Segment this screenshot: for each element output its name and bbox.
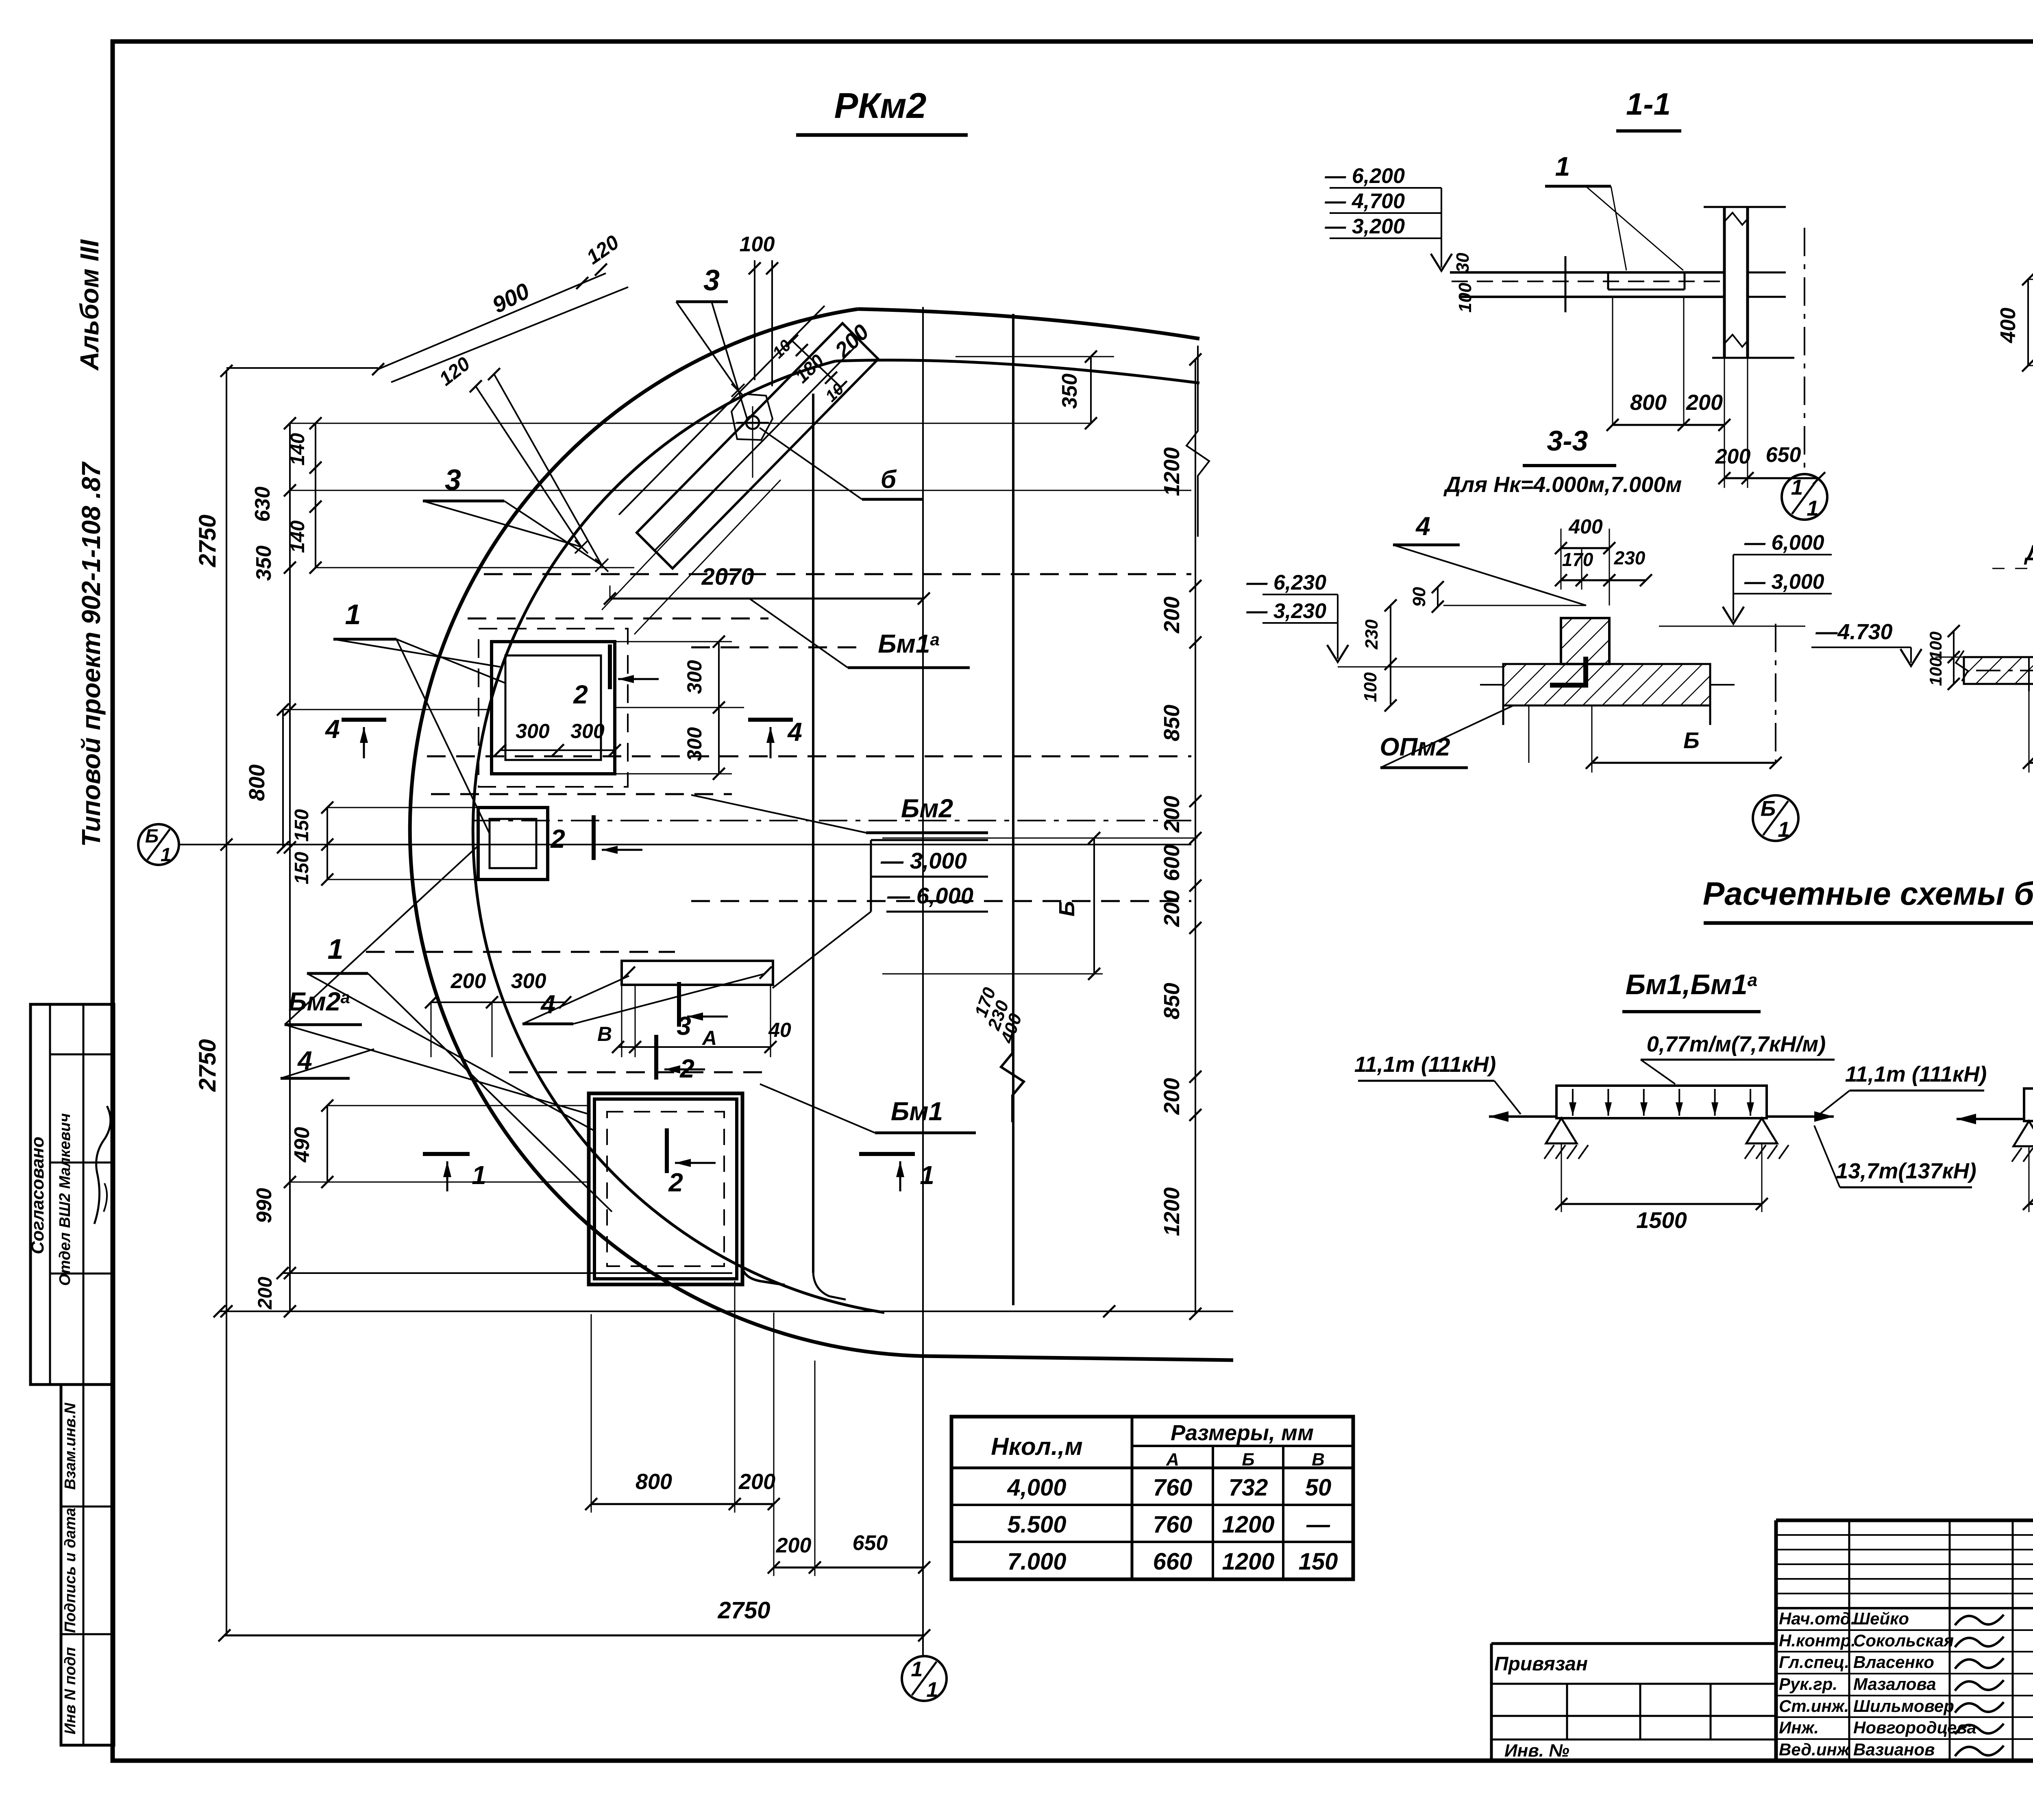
svg-text:А: А xyxy=(1166,1450,1179,1469)
svg-text:630: 630 xyxy=(251,487,274,522)
svg-text:650: 650 xyxy=(1766,443,1801,467)
svg-text:1: 1 xyxy=(472,1160,486,1190)
svg-text:230: 230 xyxy=(1362,619,1382,650)
svg-text:Рук.гр.: Рук.гр. xyxy=(1779,1674,1837,1694)
svg-text:Для Нк= 5,500м: Для Нк= 5,500м xyxy=(2024,541,2033,565)
svg-text:7.000: 7.000 xyxy=(1007,1548,1066,1575)
svg-text:1200: 1200 xyxy=(1222,1548,1274,1575)
svg-text:Отдел ВШ2 Малкевич: Отдел ВШ2 Малкевич xyxy=(57,1113,74,1286)
svg-text:650: 650 xyxy=(853,1531,888,1555)
svg-text:300: 300 xyxy=(683,660,706,694)
svg-text:100: 100 xyxy=(1926,657,1945,686)
svg-text:Инв. №: Инв. № xyxy=(1504,1741,1569,1761)
svg-text:0,77т/м(7,7кН/м): 0,77т/м(7,7кН/м) xyxy=(1647,1032,1826,1056)
svg-text:Размеры, мм: Размеры, мм xyxy=(1171,1421,1314,1445)
svg-text:4,000: 4,000 xyxy=(1007,1474,1066,1501)
svg-text:Новгородцева: Новгородцева xyxy=(1853,1718,1976,1737)
svg-text:— 3,000: — 3,000 xyxy=(1744,570,1824,594)
svg-text:170: 170 xyxy=(1562,549,1593,570)
svg-text:1: 1 xyxy=(920,1160,934,1190)
svg-text:Привязан: Привязан xyxy=(1494,1653,1588,1675)
svg-text:1: 1 xyxy=(926,1678,938,1702)
svg-text:990: 990 xyxy=(252,1188,276,1223)
svg-text:Мазалова: Мазалова xyxy=(1853,1674,1936,1694)
svg-text:Б: Б xyxy=(1761,797,1776,821)
svg-text:3: 3 xyxy=(703,264,720,297)
svg-text:Типовой проект 902-1-108 .87: Типовой проект 902-1-108 .87 xyxy=(76,461,106,847)
svg-text:800: 800 xyxy=(1630,390,1667,415)
svg-text:100: 100 xyxy=(740,233,775,256)
svg-text:150: 150 xyxy=(291,809,313,842)
svg-text:Власенко: Власенко xyxy=(1853,1652,1934,1672)
svg-text:Инв N подп: Инв N подп xyxy=(62,1647,79,1735)
svg-text:200: 200 xyxy=(255,1277,276,1310)
svg-text:Шейко: Шейко xyxy=(1853,1609,1909,1628)
svg-text:2: 2 xyxy=(679,1054,694,1083)
svg-text:140: 140 xyxy=(287,433,309,466)
svg-text:1: 1 xyxy=(1807,496,1818,520)
svg-text:1: 1 xyxy=(1791,475,1803,499)
svg-text:—: — xyxy=(1306,1511,1330,1538)
svg-text:— 3,230: — 3,230 xyxy=(1246,599,1326,623)
svg-text:— 3,000: — 3,000 xyxy=(880,848,967,873)
svg-text:400: 400 xyxy=(1996,308,2020,344)
svg-text:13,7т(137кН): 13,7т(137кН) xyxy=(1836,1159,1976,1183)
svg-text:Бм1,Бм1а: Бм1,Бм1а xyxy=(1626,969,1757,1000)
svg-text:1: 1 xyxy=(911,1658,923,1681)
svg-text:б: б xyxy=(881,466,897,494)
svg-text:4: 4 xyxy=(1415,512,1430,541)
svg-text:1: 1 xyxy=(1778,818,1789,842)
svg-text:300: 300 xyxy=(511,969,546,993)
svg-text:Б: Б xyxy=(145,825,159,847)
svg-text:400: 400 xyxy=(1568,515,1603,538)
svg-text:Расчетные схемы балок: Расчетные схемы балок xyxy=(1703,875,2033,912)
svg-text:Альбом III: Альбом III xyxy=(75,239,104,371)
svg-text:2: 2 xyxy=(668,1168,683,1197)
svg-text:200: 200 xyxy=(738,1469,775,1494)
svg-text:Вед.инж: Вед.инж xyxy=(1779,1740,1850,1759)
svg-text:— 6,200: — 6,200 xyxy=(1324,164,1405,188)
svg-text:300: 300 xyxy=(683,727,706,761)
svg-text:200: 200 xyxy=(1160,597,1184,634)
svg-text:50: 50 xyxy=(1305,1474,1332,1501)
svg-text:660: 660 xyxy=(1153,1548,1193,1575)
svg-text:2: 2 xyxy=(573,680,588,709)
svg-text:350: 350 xyxy=(1058,374,1082,409)
svg-text:200: 200 xyxy=(776,1534,812,1557)
svg-text:1200: 1200 xyxy=(1160,447,1184,496)
svg-text:100: 100 xyxy=(1360,672,1380,702)
svg-text:— 4,700: — 4,700 xyxy=(1324,189,1405,213)
svg-text:600: 600 xyxy=(1160,845,1184,881)
svg-text:1200: 1200 xyxy=(1222,1511,1274,1538)
svg-text:В: В xyxy=(597,1023,612,1045)
svg-text:Подпись и дата: Подпись и дата xyxy=(62,1508,79,1633)
svg-text:90: 90 xyxy=(1409,587,1429,607)
svg-text:140: 140 xyxy=(287,520,309,553)
svg-text:1-1: 1-1 xyxy=(1626,87,1671,122)
svg-text:2: 2 xyxy=(550,824,565,853)
svg-text:200: 200 xyxy=(1160,1078,1184,1115)
svg-text:Взам.инв.N: Взам.инв.N xyxy=(62,1402,79,1490)
svg-text:3: 3 xyxy=(677,1011,691,1041)
svg-text:Для Нк=4.000м,7.000м: Для Нк=4.000м,7.000м xyxy=(1443,472,1682,497)
svg-text:200: 200 xyxy=(1160,796,1184,833)
svg-text:300: 300 xyxy=(516,720,550,742)
svg-text:Инж.: Инж. xyxy=(1779,1718,1819,1737)
svg-text:2750: 2750 xyxy=(194,1039,221,1092)
svg-text:2070: 2070 xyxy=(701,564,754,590)
svg-text:800: 800 xyxy=(636,1469,672,1494)
svg-text:1: 1 xyxy=(345,599,361,630)
svg-text:Сокольская: Сокольская xyxy=(1853,1631,1954,1650)
svg-text:300: 300 xyxy=(570,720,605,742)
svg-text:1: 1 xyxy=(161,844,171,865)
svg-text:Ст.инж.: Ст.инж. xyxy=(1779,1696,1849,1716)
svg-text:1: 1 xyxy=(328,933,344,965)
svg-text:150: 150 xyxy=(291,852,313,884)
svg-text:760: 760 xyxy=(1153,1511,1193,1538)
svg-text:1200: 1200 xyxy=(1160,1187,1184,1236)
svg-text:11,1т (111кН): 11,1т (111кН) xyxy=(1354,1052,1496,1077)
svg-text:Бм1: Бм1 xyxy=(891,1097,943,1126)
svg-text:ОПм2: ОПм2 xyxy=(1380,733,1450,761)
svg-text:— 6,000: — 6,000 xyxy=(887,883,973,908)
svg-text:Согласовано: Согласовано xyxy=(28,1136,48,1254)
svg-text:— 6,000: — 6,000 xyxy=(1744,531,1824,555)
svg-text:490: 490 xyxy=(290,1127,314,1163)
svg-text:—4.730: —4.730 xyxy=(1815,620,1892,644)
svg-text:850: 850 xyxy=(1160,983,1184,1019)
svg-text:Гл.спец.: Гл.спец. xyxy=(1779,1652,1849,1672)
svg-text:Нкол.,м: Нкол.,м xyxy=(991,1433,1082,1460)
svg-text:5.500: 5.500 xyxy=(1007,1511,1066,1538)
svg-text:Нач.отд.: Нач.отд. xyxy=(1779,1609,1855,1628)
svg-text:800: 800 xyxy=(245,764,269,801)
svg-text:1500: 1500 xyxy=(1636,1207,1687,1233)
svg-text:В: В xyxy=(1312,1450,1325,1469)
svg-text:200: 200 xyxy=(451,969,486,993)
svg-text:40: 40 xyxy=(768,1019,791,1041)
svg-text:760: 760 xyxy=(1153,1474,1193,1501)
svg-text:— 3,200: — 3,200 xyxy=(1324,215,1405,238)
svg-text:350: 350 xyxy=(252,546,276,581)
svg-text:850: 850 xyxy=(1160,705,1184,741)
svg-text:Б: Б xyxy=(1683,727,1700,753)
svg-text:Б: Б xyxy=(1242,1450,1254,1469)
svg-text:А: А xyxy=(701,1027,717,1049)
svg-text:Н.контр.: Н.контр. xyxy=(1779,1631,1856,1650)
svg-text:230: 230 xyxy=(1614,547,1646,568)
svg-text:Вазианов: Вазианов xyxy=(1853,1740,1935,1759)
svg-text:200: 200 xyxy=(1715,445,1751,468)
svg-text:3-3: 3-3 xyxy=(1547,425,1588,457)
svg-text:11,1т (111кН): 11,1т (111кН) xyxy=(1845,1062,1987,1086)
svg-text:150: 150 xyxy=(1299,1548,1338,1575)
svg-text:732: 732 xyxy=(1229,1474,1268,1501)
svg-text:200: 200 xyxy=(1686,390,1723,415)
svg-text:2750: 2750 xyxy=(717,1597,770,1624)
svg-text:— 6,230: — 6,230 xyxy=(1246,571,1326,594)
svg-text:100: 100 xyxy=(1926,631,1945,660)
svg-text:4: 4 xyxy=(787,717,802,747)
svg-text:2750: 2750 xyxy=(194,514,221,567)
svg-text:4: 4 xyxy=(324,714,340,744)
svg-text:3: 3 xyxy=(445,464,461,496)
svg-text:Шильмовер: Шильмовер xyxy=(1853,1696,1954,1716)
svg-text:200: 200 xyxy=(1160,890,1184,927)
svg-text:Б: Б xyxy=(1055,901,1079,917)
svg-text:РКм2: РКм2 xyxy=(834,85,927,126)
svg-text:Бм2: Бм2 xyxy=(901,794,953,823)
svg-text:1: 1 xyxy=(1555,151,1570,181)
svg-text:30: 30 xyxy=(1453,253,1473,272)
